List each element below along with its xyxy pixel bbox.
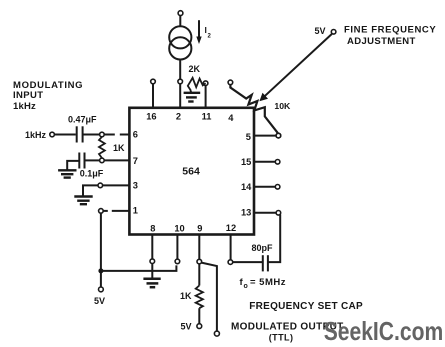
svg-text:0.1μF: 0.1μF xyxy=(80,169,104,179)
potentiometer 10K xyxy=(230,85,278,134)
node pin10 terminal xyxy=(175,259,180,264)
wire pin16 stub xyxy=(152,84,154,108)
wire pin2 stub xyxy=(179,59,181,107)
svg-text:15: 15 xyxy=(241,157,251,167)
wire pin12 to cap xyxy=(233,261,262,263)
arrow current I2 xyxy=(198,20,200,37)
svg-text:1kHz: 1kHz xyxy=(13,101,36,112)
svg-text:2: 2 xyxy=(176,112,181,122)
wire pin10 stub xyxy=(176,235,178,260)
ground (below 2K) xyxy=(190,91,192,93)
wire pin13 xyxy=(254,212,276,214)
node 5V terminal (left) xyxy=(99,287,104,292)
node pin12 terminal xyxy=(228,260,233,265)
wire pin6 xyxy=(104,134,115,136)
resistor 2K xyxy=(188,78,206,91)
svg-text:FINE FREQUENCY: FINE FREQUENCY xyxy=(344,24,436,35)
wire pin11 stub xyxy=(205,86,207,108)
wire pin1 xyxy=(103,210,108,212)
node pot top terminal xyxy=(228,80,233,85)
resistor 1K (input) xyxy=(99,137,105,158)
svg-text:6: 6 xyxy=(133,130,138,140)
node pin3 terminal xyxy=(98,183,103,188)
svg-text:2K: 2K xyxy=(189,64,201,74)
node pot bottom terminal xyxy=(276,133,281,138)
node pin14 terminal xyxy=(275,185,280,190)
svg-text:5V: 5V xyxy=(315,26,326,36)
svg-text:7: 7 xyxy=(133,156,138,166)
ground (pin3) xyxy=(74,195,92,197)
node pin8 terminal xyxy=(150,259,155,264)
wire pin5 xyxy=(254,135,276,137)
svg-text:3: 3 xyxy=(133,181,138,191)
node pin9 terminal xyxy=(197,259,202,264)
wire pin14 xyxy=(254,186,275,188)
svg-text:2: 2 xyxy=(208,34,212,40)
svg-text:0.47μF: 0.47μF xyxy=(68,115,97,125)
node pin13 terminal xyxy=(276,211,281,216)
svg-text:14: 14 xyxy=(241,182,252,192)
wire 5V rail to pin10 xyxy=(101,265,176,271)
wire pin7 xyxy=(104,159,129,161)
svg-text:13: 13 xyxy=(241,207,251,217)
wire pin1 down to 5V xyxy=(100,213,102,287)
svg-text:1K: 1K xyxy=(180,291,192,301)
wire pin12 stub xyxy=(230,235,232,260)
svg-text:564: 564 xyxy=(182,166,200,178)
wire annotation 5V to pot xyxy=(265,34,332,96)
wire 0.1uF to pin7 node xyxy=(85,159,100,161)
svg-text:12: 12 xyxy=(226,223,236,233)
wire pin9 to output xyxy=(201,263,217,332)
wire cap to pin13 xyxy=(268,215,280,263)
capacitor 80pF xyxy=(262,255,264,271)
wire pin8 to ground xyxy=(151,264,153,279)
resistor 1K (pin9) xyxy=(196,286,203,309)
node pin11 terminal xyxy=(203,81,208,86)
svg-text:INPUT: INPUT xyxy=(13,90,44,101)
svg-text:4: 4 xyxy=(228,113,234,123)
node pin16 terminal xyxy=(151,79,156,84)
op-amp U1 xyxy=(129,108,254,235)
capacitor 0.1uF xyxy=(78,153,80,169)
node pin15 terminal xyxy=(275,160,280,165)
svg-text:1: 1 xyxy=(133,205,138,215)
wire pin9 down xyxy=(198,264,200,286)
svg-text:o: o xyxy=(244,283,248,290)
svg-text:9: 9 xyxy=(197,224,202,234)
ground (0.1uF) xyxy=(58,169,76,171)
node pin6 junction xyxy=(100,132,105,137)
svg-text:80pF: 80pF xyxy=(252,243,274,253)
wire cap to pin6 node xyxy=(83,134,100,136)
wire 1K to 5V xyxy=(198,308,200,324)
capacitor 0.47uF xyxy=(76,126,78,142)
svg-text:16: 16 xyxy=(146,112,156,122)
svg-text:1kHz: 1kHz xyxy=(25,130,47,140)
svg-text:10: 10 xyxy=(174,224,184,234)
svg-text:8: 8 xyxy=(150,224,155,234)
svg-text:11: 11 xyxy=(202,112,212,122)
node pin7 junction xyxy=(100,158,105,163)
svg-text:1K: 1K xyxy=(113,143,125,153)
node pin2 terminal xyxy=(178,79,183,84)
wire pin3 to ground xyxy=(83,185,98,195)
wire pin8 stub xyxy=(151,235,153,260)
wire current source top stub xyxy=(179,15,181,26)
svg-text:FREQUENCY SET CAP: FREQUENCY SET CAP xyxy=(249,301,363,312)
wire pin3 xyxy=(103,184,130,186)
node junction 5V xyxy=(98,268,103,273)
svg-text:ADJUSTMENT: ADJUSTMENT xyxy=(347,36,416,47)
svg-text:= 5MHz: = 5MHz xyxy=(250,277,286,288)
ground (pin8) xyxy=(143,278,160,281)
node modulated output terminal xyxy=(214,331,219,336)
node top supply terminal xyxy=(178,11,183,16)
wire input to cap xyxy=(54,134,75,136)
node pin5 terminal xyxy=(276,133,281,138)
svg-text:SeekIC.com: SeekIC.com xyxy=(324,316,444,346)
node 5V fine adjust terminal xyxy=(331,30,336,35)
node pin1 terminal xyxy=(99,209,104,214)
svg-text:5V: 5V xyxy=(181,322,192,332)
wire pin15 xyxy=(254,161,275,163)
svg-text:5V: 5V xyxy=(94,296,105,306)
current source I2 xyxy=(169,26,191,48)
svg-text:10K: 10K xyxy=(274,101,291,111)
svg-text:(TTL): (TTL) xyxy=(269,332,294,342)
node 5V terminal (pin9) xyxy=(197,324,202,329)
svg-text:5: 5 xyxy=(246,132,251,142)
wire pin9 stub xyxy=(198,235,200,260)
wire 0.1uF to ground xyxy=(67,161,79,170)
